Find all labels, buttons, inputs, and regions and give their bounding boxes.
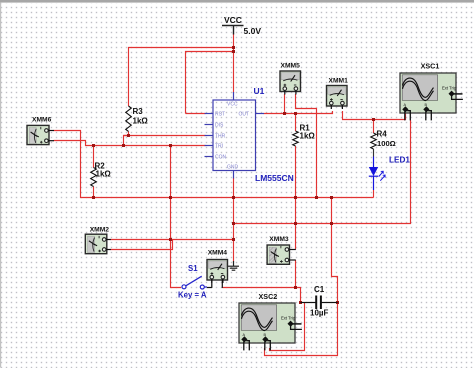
svg-text:OUT: OUT <box>239 112 250 118</box>
svg-text:LED1: LED1 <box>389 155 410 164</box>
svg-text:XSC1: XSC1 <box>421 62 440 71</box>
svg-text:U1: U1 <box>254 86 265 96</box>
svg-text:1kΩ: 1kΩ <box>133 117 149 126</box>
svg-text:XMM2: XMM2 <box>90 227 110 234</box>
svg-text:LM555CN: LM555CN <box>255 173 294 183</box>
svg-text:RST: RST <box>215 112 225 118</box>
svg-text:GND: GND <box>227 165 239 171</box>
svg-text:1kΩ: 1kΩ <box>300 132 316 141</box>
svg-text:1kΩ: 1kΩ <box>96 170 112 179</box>
svg-text:XMM3: XMM3 <box>269 236 289 243</box>
svg-text:Key = A: Key = A <box>178 291 207 300</box>
svg-text:THR: THR <box>215 133 226 139</box>
svg-text:VCC: VCC <box>224 15 242 25</box>
svg-text:5.0V: 5.0V <box>244 26 262 36</box>
svg-text:XSC2: XSC2 <box>259 292 278 301</box>
svg-text:XMM6: XMM6 <box>32 117 52 124</box>
svg-text:S1: S1 <box>188 264 198 273</box>
svg-text:100Ω: 100Ω <box>377 139 396 148</box>
svg-text:XMM1: XMM1 <box>329 77 349 84</box>
svg-text:CON: CON <box>215 154 227 160</box>
svg-text:C1: C1 <box>314 285 325 294</box>
svg-text:TRI: TRI <box>215 144 223 150</box>
svg-text:VCC: VCC <box>227 102 238 108</box>
svg-text:XMM4: XMM4 <box>208 250 228 257</box>
svg-text:DIS: DIS <box>215 123 224 129</box>
svg-text:R3: R3 <box>133 107 144 116</box>
svg-text:Ext Trig: Ext Trig <box>281 316 296 321</box>
svg-text:R4: R4 <box>377 129 388 138</box>
svg-text:XMM5: XMM5 <box>281 62 301 69</box>
svg-text:Ext Trig: Ext Trig <box>442 86 457 91</box>
svg-text:10µF: 10µF <box>310 309 329 318</box>
